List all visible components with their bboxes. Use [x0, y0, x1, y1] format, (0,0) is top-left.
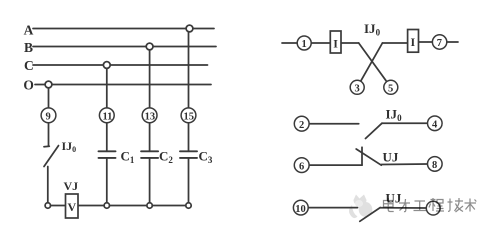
terminal circle 8: [428, 157, 443, 172]
watermark text gong: [414, 201, 427, 211]
terminal circle 10: [293, 200, 308, 215]
wire: right coil to circle 7: [419, 41, 440, 43]
node on bus under C3: [186, 203, 191, 208]
terminal circle 6: [294, 158, 309, 173]
svg-text:A: A: [24, 22, 34, 37]
svg-text:10: 10: [295, 204, 306, 215]
terminal circle 15: [181, 108, 196, 123]
svg-text:7: 7: [437, 38, 442, 49]
phase line C: [33, 64, 208, 66]
wire: right horizontal to coil I right: [382, 42, 407, 44]
node on bus under C1: [104, 203, 109, 208]
watermark text shu: [465, 199, 477, 212]
terminal circle 3: [350, 80, 364, 94]
svg-text:I: I: [333, 37, 338, 51]
bus wire bottom: [48, 205, 189, 207]
terminal circle 11: [99, 108, 114, 123]
wire: circle 1 to coil I left: [304, 42, 330, 44]
terminal circle 12: [426, 201, 440, 215]
wire: contact to node on bus: [47, 167, 49, 206]
contact UJ blade (10-12): [360, 208, 381, 222]
svg-text:C: C: [24, 58, 34, 73]
wire: circle 15 to capacitor C3: [188, 123, 190, 152]
wire: contact to circle 12: [380, 207, 426, 209]
wire: circle 7 right stub: [440, 41, 458, 43]
wire: contact to circle 8: [381, 163, 427, 166]
capacitor C2: [141, 150, 158, 152]
svg-text:8: 8: [432, 160, 437, 171]
svg-text:I: I: [411, 35, 416, 49]
coil box I right (U2): [408, 30, 419, 53]
contact IJ0 blade (2-4): [366, 123, 383, 138]
wire: circle 11 to capacitor C1: [106, 123, 108, 152]
phase line B: [33, 46, 216, 48]
wire: C2 to bus: [149, 158, 151, 206]
svg-text:UJ: UJ: [383, 150, 399, 165]
wire: vertical riser of UJ contact: [361, 147, 363, 165]
svg-text:6: 6: [299, 161, 304, 172]
wire: contact to circle 4: [382, 122, 428, 124]
wire: slant from left coil down to circle 5: [359, 43, 391, 87]
wire: C3 to bus: [188, 158, 190, 206]
terminal circle 1: [297, 36, 311, 50]
svg-text:13: 13: [145, 112, 156, 123]
svg-text:11: 11: [103, 112, 113, 123]
svg-text:O: O: [23, 77, 34, 92]
node tap on line C: [103, 62, 110, 69]
coil box I left (U1): [330, 31, 341, 53]
terminal circle 9: [41, 108, 56, 123]
svg-text:5: 5: [388, 84, 393, 95]
phase line O: [35, 84, 211, 86]
wire: C1 to bus: [106, 158, 108, 206]
svg-text:B: B: [24, 40, 33, 55]
contact UJ blade (6-8, closed): [356, 149, 381, 165]
capacitor C3: [180, 150, 197, 152]
contact IJ0 blade: [44, 146, 59, 167]
terminal circle 5: [384, 80, 398, 94]
wire: vertical from C tap down to circle 11 / C1 chain: [106, 65, 108, 108]
watermark text ji: [448, 198, 464, 212]
wire: circle 13 to capacitor C2: [149, 123, 151, 152]
watermark text cheng: [429, 198, 444, 211]
node tap on line B: [146, 43, 153, 50]
wire: circle 10 to contact UJ2: [308, 207, 357, 209]
terminal circle 7: [432, 35, 446, 49]
wire: coil I left to slant start: [341, 42, 359, 44]
node tap on line A: [186, 25, 193, 32]
phase line A: [33, 28, 214, 30]
svg-text:4: 4: [432, 120, 438, 131]
svg-text:V: V: [68, 200, 77, 214]
wire: circle 9 to IJ0 contact: [48, 123, 50, 146]
wire: vertical from A tap down to circle 15 / C3 chain: [188, 29, 190, 109]
wire: left stub to circle 1: [282, 42, 304, 44]
watermark text li: [399, 199, 410, 212]
watermark text dian: [384, 198, 477, 212]
capacitor C1: [99, 150, 116, 152]
wire: circle 6 to contact UJ: [309, 164, 362, 166]
terminal circle 4: [428, 116, 443, 131]
wire: slant from right line down to circle 3: [357, 43, 382, 87]
node on bus under C2: [147, 203, 152, 208]
node on bus under contact: [45, 203, 50, 208]
svg-text:2: 2: [299, 120, 304, 131]
wire: vertical from O tap down to circle 9: [48, 85, 50, 109]
terminal circle 2: [294, 116, 309, 131]
terminal circle 13: [142, 108, 157, 123]
wire: circle 2 to contact IJ0: [309, 123, 359, 125]
contact IJ0 fixed tick: [44, 145, 49, 148]
wire: vertical from B tap down to circle 13 / C2 chain: [149, 47, 151, 109]
svg-text:1: 1: [302, 39, 307, 50]
svg-text:15: 15: [184, 112, 195, 123]
svg-text:VJ: VJ: [64, 179, 79, 193]
svg-text:3: 3: [355, 84, 360, 95]
watermark logo: [349, 195, 372, 219]
voltage relay VJ box: [66, 194, 79, 218]
node tap on line O: [45, 81, 52, 88]
svg-text:9: 9: [46, 112, 51, 123]
